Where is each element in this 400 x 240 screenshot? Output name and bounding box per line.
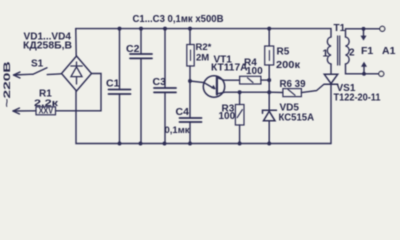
label C1...C3 (133, 13, 224, 25)
wire top bus (76, 29, 331, 37)
svg-text:F1: F1 (361, 45, 373, 57)
node b1 junction (267, 90, 271, 94)
svg-text:C2: C2 (126, 43, 140, 55)
svg-text:C4: C4 (176, 106, 190, 118)
resistor R3 (239, 92, 241, 104)
svg-text:Т1: Т1 (334, 23, 346, 34)
node emitter junction (188, 79, 192, 83)
diode bridge VD1...VD4 (62, 56, 92, 91)
svg-text:~220В: ~220В (2, 61, 13, 107)
svg-text:КТ117А: КТ117А (211, 63, 248, 74)
capacitor C4 (189, 81, 191, 118)
resistor R4 (240, 76, 261, 84)
svg-text:0,1мк: 0,1мк (165, 125, 190, 136)
terminal arrow AC top (14, 72, 21, 78)
terminal A1 top (380, 26, 385, 31)
node dots bottom bus (118, 142, 272, 146)
wire bottom bus (76, 91, 331, 144)
svg-text:XXV: XXV (39, 107, 54, 116)
wire secondary bottom to terminal (346, 64, 379, 74)
svg-text:R5: R5 (277, 47, 290, 58)
labels F1 A1 (361, 45, 396, 57)
node b1/R3 (238, 90, 242, 94)
zener VD5 КС515А (268, 92, 270, 110)
node top output (362, 27, 366, 31)
svg-text:C1: C1 (106, 78, 120, 90)
capacitor C3 (164, 29, 166, 88)
svg-text:КС515А: КС515А (279, 112, 315, 123)
wire to R1 (13, 110, 36, 112)
capacitor C2 (140, 29, 142, 54)
svg-text:100: 100 (246, 66, 263, 77)
svg-text:1: 1 (323, 49, 329, 60)
resistor R2 (189, 29, 191, 45)
svg-text:S1: S1 (31, 58, 44, 69)
svg-text:КД258Б,В: КД258Б,В (23, 41, 72, 52)
arrow up A1 (363, 66, 365, 73)
wire bridge top to bus (75, 29, 77, 56)
terminal A1 bottom (379, 71, 384, 76)
switch S1 (33, 68, 47, 74)
wire to S1 (14, 73, 34, 76)
wire R1 to bridge right vertex (56, 74, 102, 111)
arrow down F1 (363, 29, 365, 36)
svg-text:А1: А1 (382, 45, 396, 57)
resistor R6 (269, 91, 283, 93)
resistor R5 (268, 29, 270, 46)
transistor VT1 КТ117А (203, 76, 224, 97)
wire emitter (190, 81, 204, 83)
node dots top bus (118, 27, 272, 31)
wire secondary top to terminal (346, 29, 380, 37)
svg-text:2М: 2М (196, 52, 209, 63)
transformer core (337, 36, 339, 65)
thyristor VS1 Т122-20-11 (330, 64, 332, 74)
svg-text:С1...С3 0,1мк х500В: С1...С3 0,1мк х500В (133, 13, 224, 25)
node bottom output (362, 72, 366, 76)
transformer T1 primary winding 1 (327, 37, 331, 64)
terminal arrow AC bottom (13, 108, 20, 114)
node R4/R5 (267, 78, 271, 82)
capacitor C1 (119, 29, 121, 90)
svg-text:C3: C3 (153, 76, 167, 88)
svg-text:Т122-20-11: Т122-20-11 (334, 93, 381, 104)
svg-text:2: 2 (349, 48, 355, 59)
label ~220В (2, 61, 13, 107)
svg-text:200к: 200к (276, 60, 301, 71)
svg-text:R6 39: R6 39 (280, 79, 306, 90)
svg-text:100: 100 (219, 111, 236, 122)
resistor R1 (36, 107, 56, 115)
transformer T1 secondary winding 2 (346, 37, 350, 64)
